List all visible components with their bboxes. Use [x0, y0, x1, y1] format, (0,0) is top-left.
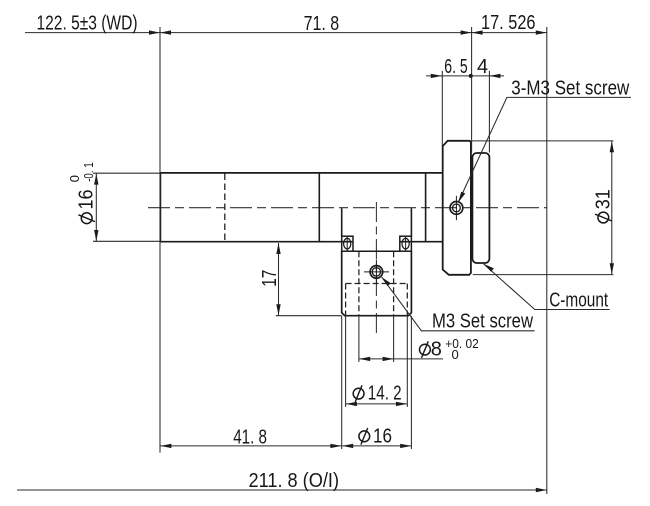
hidden phi8 bore lines: [359, 251, 394, 316]
svg-text:122. 5±3 (WD): 122. 5±3 (WD): [37, 13, 138, 35]
svg-text:211. 8 (O/I): 211. 8 (O/I): [249, 470, 340, 492]
svg-text:14. 2: 14. 2: [368, 383, 402, 405]
svg-text:4: 4: [477, 56, 488, 78]
dimension phi14.2: [346, 316, 408, 407]
dimension 4: [471, 75, 504, 77]
svg-text:17: 17: [259, 270, 281, 287]
dimension 71.8: [160, 32, 472, 34]
mount block body: [342, 251, 412, 316]
extension line flange front: [441, 71, 443, 146]
svg-text:17. 526: 17. 526: [481, 12, 536, 34]
3-M3 set screw on flange: [450, 196, 463, 220]
svg-text:-0. 1: -0. 1: [81, 162, 96, 182]
hidden phi14.2 counterbore: [346, 284, 408, 316]
dimension 17: [276, 243, 342, 316]
svg-text:3-M3 Set screw: 3-M3 Set screw: [511, 78, 629, 100]
svg-text:M3 Set screw: M3 Set screw: [432, 310, 533, 332]
dimension 211.8 (O/I): [17, 489, 547, 491]
tube section line 1: [318, 173, 320, 242]
dimension phi8 with tolerance: [359, 316, 443, 362]
centerline vertical block axis: [375, 202, 377, 336]
extension line C-mount shoulder: [471, 27, 473, 153]
dimension phi16 bottom: [342, 316, 412, 449]
clamp screw right: [402, 237, 409, 251]
svg-text:0: 0: [67, 175, 82, 182]
svg-text:16: 16: [373, 425, 392, 447]
svg-text:0: 0: [452, 347, 459, 362]
dimension phi31: [472, 141, 614, 275]
svg-text:41. 8: 41. 8: [233, 427, 267, 449]
svg-text:71. 8: 71. 8: [304, 13, 340, 35]
clamp screw left: [344, 237, 351, 251]
leader M3 set screw: [382, 277, 535, 331]
dimension 41.8: [160, 445, 341, 447]
tube section line 2: [425, 173, 427, 242]
tube hidden internal edge: [224, 174, 226, 242]
extension line front face: [159, 27, 161, 453]
svg-text:31: 31: [592, 189, 614, 209]
clamp screw boss left: [342, 236, 353, 251]
clamp screw boss right: [400, 236, 412, 251]
M3 set screw on block: [364, 260, 389, 285]
dimension 122.5+-3 (WD): [25, 32, 160, 34]
flange (phi31): [443, 141, 471, 275]
svg-text:8: 8: [431, 339, 442, 361]
leader C-mount: [484, 264, 610, 310]
svg-text:16: 16: [76, 190, 98, 210]
svg-text:C-mount: C-mount: [549, 289, 608, 311]
mount block upper edges: [342, 208, 412, 236]
svg-text:6. 5: 6. 5: [444, 56, 467, 78]
dimension 6.5: [426, 75, 471, 77]
lens tube body outline: [160, 173, 442, 242]
image plane line: [546, 27, 548, 494]
extension line ring rear: [488, 71, 490, 153]
centerline horizontal axis: [148, 207, 547, 209]
C-mount thread ring: [472, 153, 489, 263]
dimension phi16 left with tolerance: [93, 173, 160, 241]
boss connecting edge: [353, 250, 400, 252]
leader 3-M3 set screw: [458, 97, 631, 202]
svg-text:+0. 02: +0. 02: [445, 336, 479, 351]
dimension 17.526: [472, 32, 547, 34]
